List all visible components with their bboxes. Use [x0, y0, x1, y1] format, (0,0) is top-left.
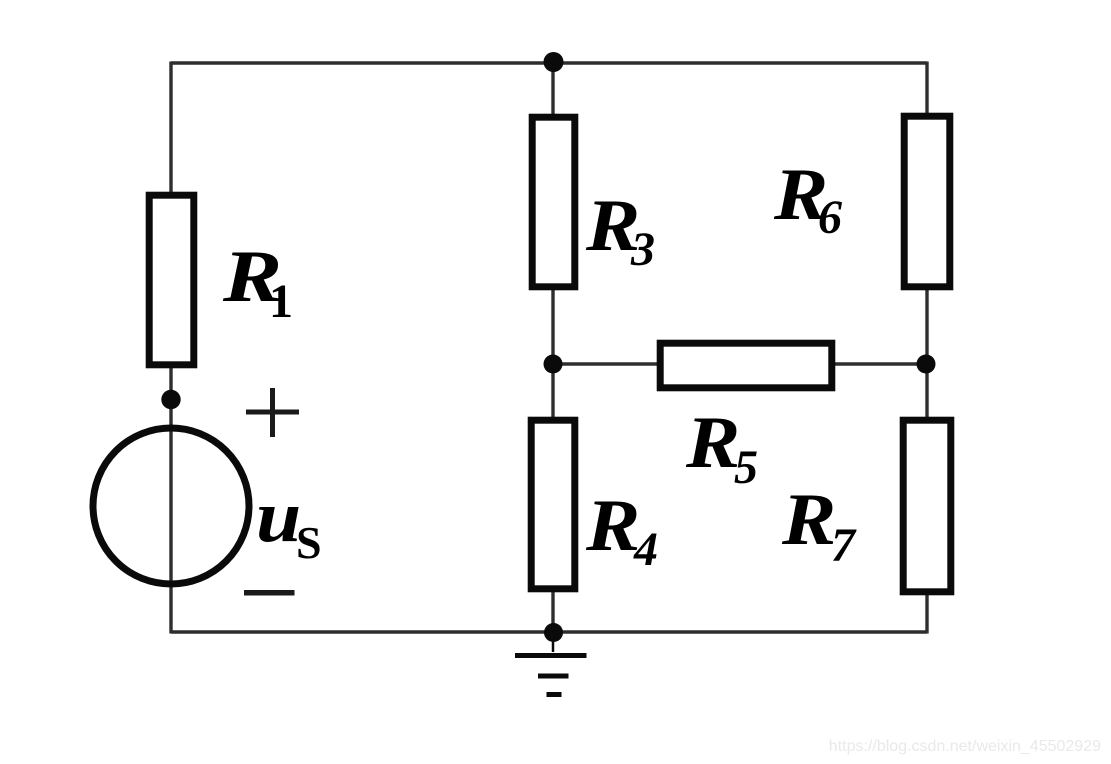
svg-text:1: 1 — [269, 275, 293, 328]
svg-text:6: 6 — [818, 191, 842, 244]
node left (above source) — [161, 390, 180, 409]
resistor R4 — [531, 420, 575, 589]
wire bottom horizontal — [171, 630, 927, 633]
label R6 — [773, 153, 842, 244]
svg-text:4: 4 — [633, 523, 658, 576]
label us — [256, 475, 322, 568]
svg-text:https://blog.csdn.net/weixin_4: https://blog.csdn.net/weixin_45502929 — [829, 738, 1101, 755]
wire R5 horizontal — [553, 362, 927, 365]
resistor R7 — [903, 420, 951, 592]
wire top horizontal — [171, 61, 927, 64]
resistor R5 — [660, 343, 832, 388]
voltage source us circle — [93, 428, 249, 584]
label R1 — [222, 235, 293, 328]
svg-text:R: R — [585, 484, 640, 566]
resistor R3 — [532, 117, 575, 287]
label R4 — [585, 484, 658, 576]
svg-text:7: 7 — [831, 519, 857, 572]
node middle (R3/R4/R5) — [544, 355, 563, 374]
svg-text:3: 3 — [630, 223, 655, 276]
wire right vertical — [925, 62, 928, 634]
node right (R6/R7/R5) — [917, 355, 936, 374]
resistor R1 — [149, 195, 194, 365]
svg-text:u: u — [256, 475, 301, 557]
label R3 — [585, 184, 655, 276]
svg-text:5: 5 — [734, 441, 758, 494]
wire middle vertical — [551, 62, 554, 634]
svg-text:R: R — [685, 401, 740, 483]
svg-text:S: S — [296, 517, 322, 568]
plus sign — [246, 388, 299, 437]
resistor R6 — [904, 116, 950, 287]
label R7 — [781, 478, 857, 572]
label R5 — [685, 401, 758, 494]
node top — [544, 52, 564, 72]
ground — [515, 632, 587, 695]
svg-text:R: R — [781, 478, 836, 560]
wire left vertical — [169, 62, 172, 634]
minus sign — [244, 590, 295, 596]
node bottom — [544, 623, 563, 642]
